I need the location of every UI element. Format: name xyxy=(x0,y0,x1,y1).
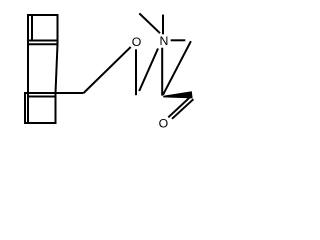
carbonyl double bond line a xyxy=(168,96,191,118)
N methyl bond right xyxy=(171,39,186,41)
carbonyl double bond line b xyxy=(172,99,193,119)
chain diagonal bond CH2 to O xyxy=(84,47,131,93)
ring diagonal bond C2-C3 xyxy=(163,41,191,95)
cage top-square outer bottom bond xyxy=(27,43,58,45)
N methyl bond up-left xyxy=(139,13,160,33)
bond CH2 to N (diagonal) xyxy=(139,49,158,92)
wedge bond C3 to CHO xyxy=(163,91,192,98)
svg-text:O: O xyxy=(132,35,142,49)
cage top-square inner vertical bond xyxy=(31,14,33,41)
bond O to CH2 (vertical) xyxy=(135,49,137,95)
cage top-square inner horizontal bond xyxy=(28,40,58,42)
cage bottom-square inner top bond xyxy=(27,96,56,98)
ring vertical bond N-C3 xyxy=(161,48,163,96)
N methyl bond up xyxy=(162,15,164,35)
cage right polyline bond xyxy=(56,14,58,124)
cage bottom-square bottom edge xyxy=(24,122,57,124)
svg-text:O: O xyxy=(159,116,169,130)
cage bottom-square top edge + chain horizontal bond xyxy=(24,92,84,94)
cage top edge xyxy=(27,14,58,16)
svg-text:N: N xyxy=(160,34,169,48)
cage bottom-square outer left bond xyxy=(24,92,26,124)
cage left long bond xyxy=(27,14,29,124)
